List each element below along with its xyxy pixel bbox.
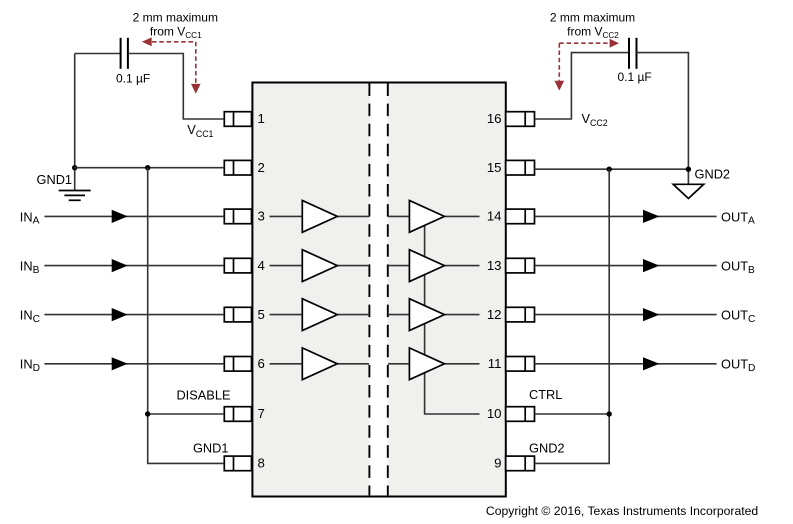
wire: buffer B input (right) from barrier	[388, 265, 409, 267]
svg-text:12: 12	[487, 307, 502, 322]
pin 1 box	[224, 112, 251, 127]
pin 4 box	[224, 258, 251, 273]
wire: buffer C input (left)	[270, 314, 303, 316]
red dashed arrow horizontal (left)	[152, 41, 196, 43]
svg-text:0.1 µF: 0.1 µF	[116, 71, 150, 85]
svg-text:2 mm maximum: 2 mm maximum	[550, 10, 635, 24]
wire: buffer A input (right) from barrier	[388, 215, 409, 217]
svg-text:GND1: GND1	[37, 172, 73, 187]
wire: DISABLE/GND1 vertical bus	[148, 168, 225, 464]
buffer B1 (left channel B)	[302, 250, 337, 282]
pin 14 box	[506, 209, 535, 224]
pin 12 box	[506, 307, 535, 322]
wire: buffer D input (right) from barrier	[388, 363, 409, 365]
wire: INA input	[44, 215, 224, 217]
red arrowhead down-pointing (right)	[555, 81, 565, 91]
red arrowhead down-pointing (left)	[191, 84, 201, 94]
svg-text:2: 2	[258, 160, 265, 175]
buffer C2 (right channel C)	[409, 299, 444, 331]
wire: IND input	[44, 363, 224, 365]
node junction dot at pin 10	[607, 411, 612, 416]
wire: buffer D input (left)	[270, 363, 303, 365]
wire: VCC1 net vertical from bypass cap to GND1	[74, 54, 76, 191]
buffer D1 (left channel D)	[302, 348, 337, 380]
wire: buffer C output to barrier	[337, 314, 369, 316]
svg-text:4: 4	[258, 258, 265, 273]
svg-text:3: 3	[258, 209, 265, 224]
buffer A1 (left channel A)	[302, 201, 337, 233]
wire: INC input	[44, 314, 224, 316]
pin 9 box	[506, 456, 535, 471]
pin 5 box	[224, 307, 251, 322]
wire: cap C2 right lead down to GND2	[637, 53, 689, 185]
wire: cap C1 right lead to pin 1	[128, 54, 224, 120]
wire: pin 2 to GND1	[75, 167, 225, 169]
svg-text:16: 16	[487, 111, 502, 126]
pin 3 box	[224, 209, 251, 224]
wire: buffer B output to barrier	[337, 265, 369, 267]
svg-text:GND2: GND2	[529, 441, 565, 456]
svg-text:5: 5	[258, 307, 265, 322]
svg-text:13: 13	[487, 258, 502, 273]
buffer B2 (right channel B)	[409, 250, 444, 282]
wire: pin 10 CTRL stub	[535, 413, 610, 415]
svg-text:9: 9	[494, 456, 501, 471]
wire: buffer D output to barrier	[337, 363, 369, 365]
arrow on OUTC	[643, 308, 659, 321]
node GND1 junction dot	[72, 165, 77, 170]
svg-text:1: 1	[258, 111, 265, 126]
capacitor C1 0.1 uF	[121, 38, 128, 69]
arrow on OUTA	[643, 210, 659, 223]
svg-text:CTRL: CTRL	[529, 387, 562, 402]
pin 2 box	[224, 160, 251, 175]
IC body U1	[252, 83, 505, 497]
node junction dot at pin 7	[145, 411, 150, 416]
pin 16 box	[506, 112, 535, 127]
wire: INB input	[44, 265, 224, 267]
wire: CTRL enable bus to pin 10	[425, 220, 480, 414]
svg-text:11: 11	[488, 356, 502, 371]
arrow on INA	[112, 210, 128, 223]
red dashed arrow horizontal (right)	[559, 42, 609, 44]
wire: buffer D output to pin 11	[444, 363, 479, 365]
svg-text:GND1: GND1	[193, 441, 229, 456]
arrow on INB	[112, 259, 128, 272]
ground GND1 symbol	[59, 191, 91, 201]
node GND2 junction dot	[686, 167, 691, 172]
svg-text:7: 7	[258, 406, 265, 421]
pin 8 box	[224, 456, 251, 471]
isolation barrier dashed line left	[368, 84, 370, 496]
svg-text:2 mm maximum: 2 mm maximum	[133, 10, 218, 24]
svg-text:10: 10	[487, 406, 502, 421]
arrow on INC	[112, 308, 128, 321]
buffer A2 (right channel A)	[409, 201, 444, 233]
svg-text:6: 6	[258, 356, 265, 371]
pin 6 box	[224, 357, 251, 372]
pin 15 box	[506, 160, 535, 175]
svg-text:Copyright © 2016, Texas Instru: Copyright © 2016, Texas Instruments Inco…	[486, 504, 758, 518]
svg-text:GND2: GND2	[695, 167, 731, 182]
red arrowhead left-pointing	[142, 37, 152, 46]
wire: buffer C input (right) from barrier	[388, 314, 409, 316]
arrow on IND	[112, 357, 128, 370]
svg-text:DISABLE: DISABLE	[176, 387, 230, 402]
svg-text:8: 8	[258, 456, 265, 471]
pin 13 box	[506, 258, 535, 273]
wire: pin 7 DISABLE stub	[148, 413, 225, 415]
wire: buffer A input (left)	[270, 215, 303, 217]
arrow on OUTB	[643, 259, 659, 272]
buffer D2 (right channel D)	[409, 348, 444, 380]
arrow on OUTD	[643, 357, 659, 370]
isolation barrier dashed line right	[387, 84, 389, 496]
wire: OUTC output	[535, 314, 717, 316]
capacitor C2 0.1 uF	[629, 38, 637, 69]
red dashed arrow vertical (right)	[558, 43, 560, 80]
wire: OUTA output	[535, 215, 717, 217]
wire: pin 16 VCC2 lead	[535, 53, 630, 119]
pin 7 box	[224, 407, 251, 422]
wire: buffer B input (left)	[270, 265, 303, 267]
pin 10 box	[506, 407, 535, 422]
svg-text:0.1 µF: 0.1 µF	[618, 70, 652, 84]
svg-text:14: 14	[487, 209, 502, 224]
wire: buffer A output to pin 14	[444, 215, 479, 217]
svg-text:15: 15	[487, 160, 502, 175]
isolation barrier white strip	[370, 84, 388, 496]
wire: pin 15 to GND2	[535, 168, 689, 170]
wire: buffer B output to pin 13	[444, 265, 479, 267]
wire: CTRL/GND2 vertical bus	[535, 169, 610, 463]
node junction dot on pin 15 wire	[607, 167, 612, 172]
ground GND2 symbol	[673, 184, 704, 198]
wire: OUTD output	[535, 363, 717, 365]
wire: buffer A output to barrier	[337, 215, 369, 217]
wire: buffer C output to pin 12	[444, 314, 479, 316]
node junction dot on pin 2 wire	[145, 165, 150, 170]
red arrowhead right-pointing	[610, 39, 619, 48]
wire: cap C1 left lead	[75, 53, 121, 55]
pin 11 box	[506, 357, 535, 372]
wire: OUTB output	[535, 265, 717, 267]
buffer C1 (left channel C)	[302, 299, 337, 331]
red dashed arrow vertical (left)	[195, 42, 197, 84]
